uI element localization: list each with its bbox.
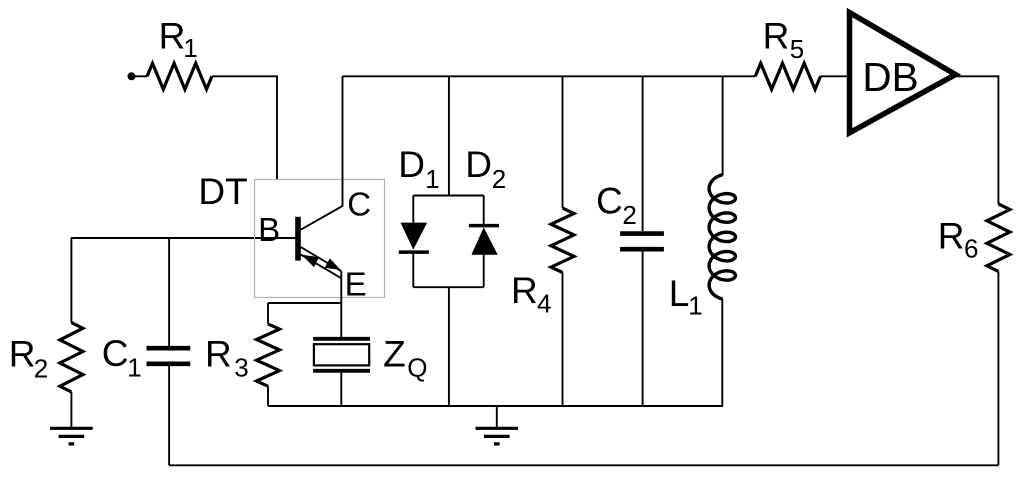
diode D1 anode lead	[412, 196, 414, 223]
svg-text:C: C	[347, 185, 371, 222]
transistor DT body box	[255, 180, 385, 298]
wire diode pair top bar	[413, 195, 483, 197]
wire bottom feedback	[169, 464, 998, 466]
wire R2 to ground	[70, 392, 72, 427]
wire top rail	[343, 75, 756, 77]
wire emitter to R3 top	[268, 302, 341, 304]
diode D1 cathode bar	[399, 250, 429, 254]
diode D2 cathode bar	[469, 224, 499, 228]
svg-text:D: D	[398, 144, 425, 185]
svg-text:2: 2	[34, 353, 48, 383]
svg-text:R: R	[205, 333, 232, 374]
svg-text:4: 4	[537, 289, 551, 319]
ground for R2	[50, 428, 93, 444]
wire R6 to bottom feedback	[997, 271, 999, 465]
svg-text:D: D	[465, 144, 492, 185]
wire DB output to R6	[956, 76, 999, 204]
svg-text:E: E	[345, 266, 367, 303]
svg-text:L: L	[669, 273, 690, 314]
op-amp U1 DB buffer triangle	[850, 13, 956, 133]
transistor DT emitter arrow outward	[325, 258, 341, 270]
diode D2 triangle	[471, 227, 497, 254]
svg-text:C: C	[102, 333, 129, 374]
diode D1 triangle	[401, 223, 428, 250]
diode D1 cathode lead	[412, 254, 414, 287]
diode D2 cathode lead	[483, 196, 485, 226]
svg-text:5: 5	[790, 34, 804, 64]
svg-text:B: B	[258, 211, 280, 248]
capacitor C1 top lead	[168, 238, 170, 346]
svg-text:1: 1	[425, 164, 439, 194]
crystal ZQ box	[314, 344, 369, 365]
svg-text:R: R	[938, 215, 965, 256]
wire R1 to DT box	[212, 76, 277, 179]
svg-text:DB: DB	[862, 54, 918, 100]
wire base net	[71, 237, 295, 239]
resistor R6	[987, 204, 1010, 272]
transistor DT base bar	[295, 217, 301, 261]
diode D2 anode lead	[483, 255, 485, 288]
wire C2 top lead	[642, 76, 644, 231]
wire input to R1	[132, 75, 148, 77]
resistor R5	[755, 63, 820, 89]
transistor DT emitter double lines	[301, 247, 342, 278]
wire L1 bottom lead	[721, 299, 723, 406]
svg-text:DT: DT	[198, 171, 247, 212]
svg-text:R: R	[159, 16, 186, 57]
svg-text:6: 6	[964, 233, 978, 263]
wire crystal bottom lead	[340, 373, 342, 406]
svg-text:C: C	[596, 180, 623, 221]
ground center symbol	[476, 428, 519, 444]
svg-text:R: R	[9, 333, 36, 374]
wire diode pair bottom bar	[413, 286, 483, 288]
svg-text:2: 2	[492, 164, 506, 194]
svg-text:Z: Z	[383, 334, 406, 375]
svg-text:1: 1	[183, 33, 197, 63]
wire C2 bottom lead	[642, 252, 644, 407]
svg-text:3: 3	[234, 353, 248, 383]
wire R5 to DB	[821, 75, 850, 77]
svg-text:Q: Q	[407, 352, 427, 382]
svg-text:2: 2	[622, 200, 636, 230]
wire diode pair bottom lead	[448, 287, 450, 406]
resistor R2	[60, 323, 83, 393]
svg-text:1: 1	[688, 291, 702, 321]
capacitor C1 bottom lead	[168, 366, 170, 465]
capacitor C1 plates	[147, 348, 191, 364]
inductor L1	[722, 76, 724, 175]
resistor R1	[147, 63, 212, 89]
inductor L1 curl	[709, 175, 735, 299]
wire emitter down to crystal	[340, 278, 342, 337]
resistor R3	[257, 324, 280, 386]
svg-text:R: R	[511, 270, 538, 311]
crystal ZQ electrodes	[313, 339, 370, 371]
resistor R4	[551, 208, 574, 272]
node input terminal	[128, 72, 136, 80]
wire diode pair top lead	[448, 76, 450, 195]
wire base to R2	[70, 238, 72, 323]
wire ground bus	[268, 405, 723, 407]
wire R4 bottom lead	[562, 273, 564, 407]
svg-text:R: R	[763, 16, 790, 57]
transistor DT emitter arrow inward	[302, 255, 320, 268]
wire R3 bottom lead	[267, 386, 269, 406]
svg-text:1: 1	[127, 353, 141, 383]
wire R3 top lead	[267, 303, 269, 324]
ground center stub	[496, 406, 498, 427]
capacitor C2 plates	[620, 234, 664, 250]
wire R4 top lead	[562, 76, 564, 208]
transistor DT collector lead	[301, 76, 343, 229]
